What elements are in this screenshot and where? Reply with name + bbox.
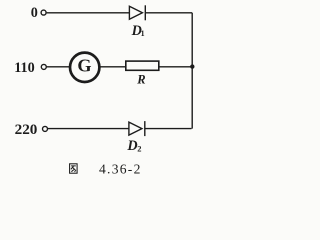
- svg-text:110: 110: [14, 60, 35, 76]
- terminal 220: [43, 126, 48, 131]
- resistor R body: [126, 61, 159, 70]
- wire top: diode D1 to right bus: [145, 12, 192, 14]
- wire middle: resistor R to junction: [159, 66, 192, 68]
- wire bottom: diode D2 to right bus: [145, 128, 192, 130]
- diode D2: [129, 121, 145, 136]
- svg-text:R: R: [136, 73, 145, 87]
- terminal 0: [41, 10, 46, 15]
- junction node: [190, 64, 194, 68]
- wire right bus: [191, 13, 193, 129]
- svg-text:G: G: [77, 55, 91, 75]
- svg-text:1: 1: [141, 29, 145, 38]
- svg-text:D: D: [126, 138, 137, 154]
- svg-text:0: 0: [31, 5, 38, 21]
- terminal 110: [41, 64, 46, 69]
- wire top: terminal 0 to diode D1: [47, 12, 129, 14]
- diode D1: [129, 5, 145, 20]
- caption glyph 图: [70, 164, 78, 173]
- wire middle: generator G to resistor R: [101, 66, 126, 68]
- svg-text:220: 220: [15, 121, 38, 138]
- svg-text:4.36-2: 4.36-2: [99, 162, 142, 177]
- svg-text:2: 2: [137, 144, 141, 154]
- generator G circle: [70, 53, 99, 82]
- wire middle: terminal 110 to generator G: [47, 66, 70, 68]
- wire bottom: terminal 220 to diode D2: [48, 128, 129, 130]
